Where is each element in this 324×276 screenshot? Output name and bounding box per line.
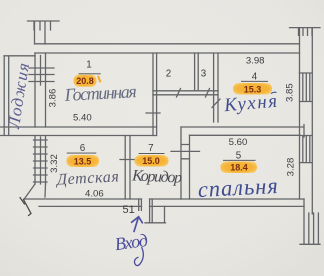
svg-text:3.98: 3.98 — [246, 56, 265, 67]
svg-text:6: 6 — [80, 143, 86, 154]
svg-text:18.4: 18.4 — [230, 163, 248, 173]
svg-text:3.28: 3.28 — [285, 158, 296, 177]
svg-text:4.06: 4.06 — [85, 188, 104, 199]
svg-text:спальня: спальня — [197, 173, 278, 202]
svg-text:2: 2 — [166, 69, 171, 80]
svg-text:3.86: 3.86 — [48, 89, 59, 108]
svg-text:5.60: 5.60 — [229, 137, 248, 148]
svg-text:1: 1 — [86, 60, 91, 71]
svg-text:Гостинная: Гостинная — [63, 81, 137, 105]
svg-text:Детская: Детская — [54, 168, 119, 188]
svg-text:3: 3 — [201, 69, 207, 80]
svg-text:Коридор: Коридор — [131, 167, 183, 186]
svg-text:5.40: 5.40 — [73, 112, 92, 123]
svg-text:13.5: 13.5 — [74, 156, 92, 166]
svg-text:15.0: 15.0 — [142, 156, 160, 166]
svg-text:3.85: 3.85 — [285, 83, 296, 102]
svg-text:3.32: 3.32 — [49, 154, 60, 173]
svg-text:51: 51 — [122, 204, 134, 216]
svg-text:7: 7 — [148, 143, 153, 154]
